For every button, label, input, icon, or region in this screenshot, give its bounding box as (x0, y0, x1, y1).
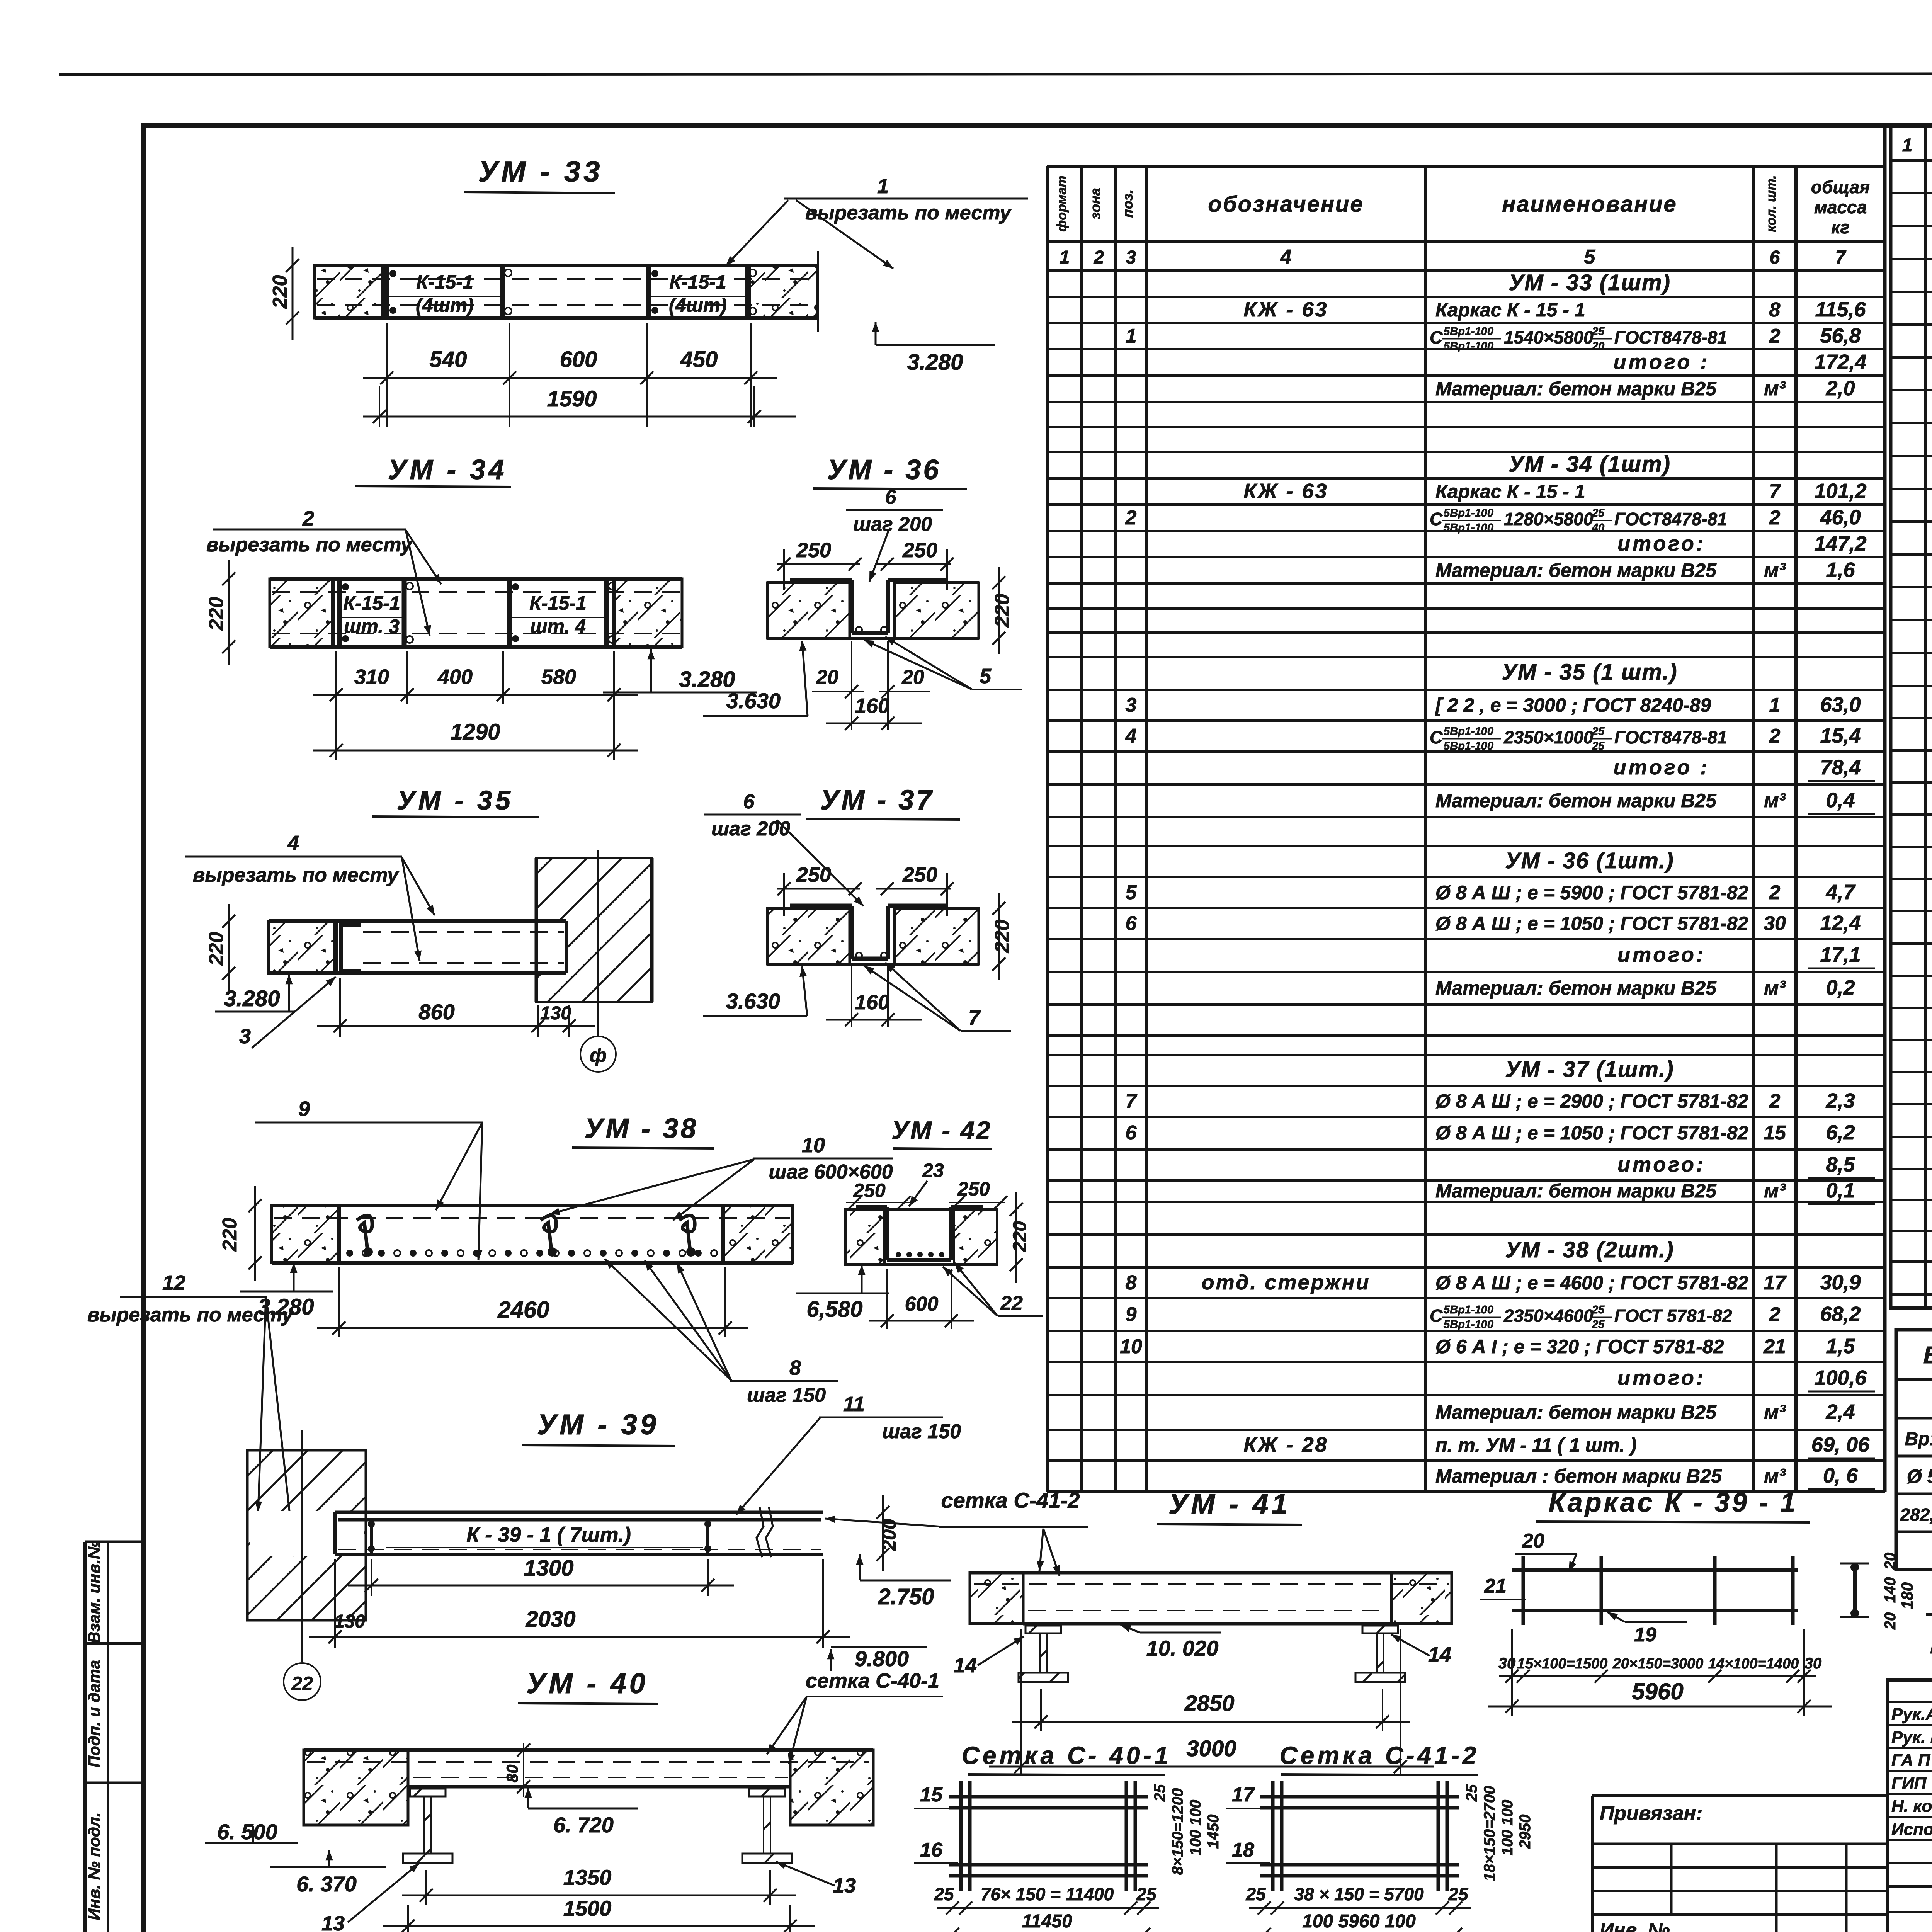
svg-text:1350: 1350 (563, 1865, 612, 1889)
svg-text:1,5: 1,5 (1826, 1335, 1855, 1358)
svg-text:0, 6: 0, 6 (1823, 1464, 1858, 1487)
svg-text:УМ - 42: УМ - 42 (891, 1116, 992, 1145)
svg-text:итого:: итого: (1617, 943, 1706, 966)
svg-text:Привязан:: Привязан: (1600, 1802, 1702, 1825)
svg-text:6: 6 (1126, 1122, 1137, 1144)
svg-text:20: 20 (1522, 1530, 1544, 1552)
svg-text:КЖ - 63: КЖ - 63 (1243, 298, 1328, 321)
svg-text:56,8: 56,8 (1820, 324, 1861, 347)
svg-text:250: 250 (796, 539, 831, 562)
svg-text:220: 220 (991, 920, 1014, 954)
drawing UM-40 (205, 1667, 943, 1932)
svg-text:20: 20 (901, 666, 924, 689)
drawing UM-39 (87, 1271, 961, 1700)
svg-text:шаг 150: шаг 150 (882, 1420, 961, 1443)
svg-text:140: 140 (1882, 1577, 1899, 1603)
svg-text:250: 250 (796, 863, 831, 886)
svg-text:1280×5800: 1280×5800 (1504, 509, 1594, 529)
svg-text:6: 6 (1126, 912, 1137, 935)
svg-text:6,2: 6,2 (1826, 1121, 1855, 1144)
svg-text:4: 4 (1125, 725, 1137, 747)
svg-text:600: 600 (560, 347, 597, 372)
svg-text:160: 160 (855, 991, 889, 1014)
svg-text:Материал: бетон марки В25: Материал: бетон марки В25 (1435, 378, 1717, 400)
svg-text:220: 220 (269, 275, 291, 309)
svg-text:Материал: бетон марки В25: Материал: бетон марки В25 (1435, 977, 1717, 999)
svg-text:147,2: 147,2 (1814, 532, 1866, 555)
svg-text:130: 130 (540, 1003, 571, 1024)
svg-text:17,1: 17,1 (1820, 943, 1861, 966)
svg-text:итого :: итого : (1614, 350, 1710, 374)
svg-text:14×100=1400: 14×100=1400 (1708, 1656, 1799, 1672)
svg-text:УМ - 34 (1шт): УМ - 34 (1шт) (1509, 452, 1671, 477)
svg-text:130: 130 (334, 1611, 365, 1632)
svg-text:19: 19 (1634, 1624, 1656, 1646)
svg-text:вырезать по месту: вырезать по месту (193, 864, 400, 886)
svg-text:11: 11 (843, 1393, 865, 1416)
svg-text:Сетка С- 40-1: Сетка С- 40-1 (962, 1742, 1172, 1769)
svg-text:1: 1 (1126, 325, 1137, 347)
svg-text:38 × 150 = 5700: 38 × 150 = 5700 (1294, 1884, 1424, 1904)
svg-text:540: 540 (430, 347, 467, 372)
svg-text:1: 1 (877, 175, 889, 198)
svg-text:22: 22 (1000, 1292, 1023, 1315)
svg-text:0,2: 0,2 (1826, 976, 1855, 999)
svg-text:16: 16 (920, 1839, 943, 1861)
svg-text:101,2: 101,2 (1814, 480, 1866, 503)
svg-text:Сетка С-41-2: Сетка С-41-2 (1280, 1742, 1480, 1769)
middle table header texts (1054, 175, 1870, 268)
svg-text:шаг 150: шаг 150 (747, 1384, 826, 1406)
svg-text:13: 13 (833, 1874, 856, 1897)
svg-text:9: 9 (298, 1097, 310, 1121)
svg-text:вырезать по месту: вырезать по месту (206, 534, 413, 556)
svg-text:3: 3 (1126, 247, 1136, 268)
svg-text:860: 860 (418, 1000, 454, 1024)
svg-text:20: 20 (1882, 1612, 1899, 1630)
svg-text:5Вр1-100: 5Вр1-100 (1444, 522, 1493, 534)
svg-text:Вр1: Вр1 (1905, 1429, 1932, 1449)
svg-text:К - 39 - 1 ( 7шт.): К - 39 - 1 ( 7шт.) (466, 1523, 631, 1546)
svg-text:7: 7 (1769, 480, 1781, 503)
svg-text:5: 5 (1584, 246, 1596, 268)
svg-text:Ø 8 А Ш ; e = 1050 ; ГОСТ 57: Ø 8 А Ш ; e = 1050 ; ГОСТ 5781-82 (1435, 913, 1748, 934)
svg-text:УМ - 34: УМ - 34 (388, 454, 507, 485)
note K-15-1 (1926, 1584, 1932, 1614)
svg-text:220: 220 (205, 932, 228, 966)
svg-text:2: 2 (1769, 1090, 1781, 1112)
svg-text:УМ - 39: УМ - 39 (537, 1408, 659, 1440)
svg-text:23: 23 (922, 1160, 944, 1181)
svg-text:ф: ф (590, 1044, 607, 1066)
svg-text:1: 1 (1060, 247, 1070, 268)
svg-text:30: 30 (1804, 1655, 1822, 1672)
svg-text:поз.: поз. (1120, 190, 1136, 218)
svg-text:м³: м³ (1764, 559, 1786, 582)
svg-text:К-15-1: К-15-1 (343, 592, 400, 614)
svg-text:6,580: 6,580 (806, 1297, 862, 1322)
svg-text:46,0: 46,0 (1820, 506, 1861, 529)
svg-text:итого:: итого: (1617, 1153, 1706, 1176)
middle specification table grid (1047, 166, 1885, 1492)
title block frame (1888, 1680, 1932, 1932)
svg-text:2950: 2950 (1517, 1815, 1534, 1849)
svg-text:220: 220 (991, 594, 1014, 628)
svg-text:Инв. №: Инв. № (1600, 1919, 1670, 1932)
svg-text:25: 25 (1592, 1304, 1605, 1316)
svg-text:ГА П: ГА П (1891, 1751, 1931, 1770)
svg-text:сетка С-40-1: сетка С-40-1 (806, 1669, 939, 1692)
svg-text:450: 450 (680, 347, 718, 372)
svg-text:итого :: итого : (1614, 756, 1710, 779)
svg-text:Н. контр.: Н. контр. (1891, 1797, 1932, 1816)
svg-text:1500: 1500 (563, 1896, 612, 1920)
svg-text:УМ - 38 (2шт.): УМ - 38 (2шт.) (1505, 1237, 1674, 1262)
svg-text:68,2: 68,2 (1820, 1303, 1861, 1326)
svg-text:итого:: итого: (1617, 1366, 1706, 1389)
svg-text:Ø 6 А I ; e = 320 ; ГОСТ 5781: Ø 6 А I ; e = 320 ; ГОСТ 5781-82 (1435, 1336, 1724, 1357)
svg-text:180: 180 (1898, 1582, 1916, 1609)
middle table rows (1047, 270, 1885, 1492)
svg-text:5Вр1-100: 5Вр1-100 (1444, 1318, 1493, 1331)
svg-text:наименование: наименование (1502, 192, 1677, 217)
svg-text:2: 2 (1125, 507, 1137, 529)
note sheets (1930, 1629, 1932, 1654)
svg-text:20×150=3000: 20×150=3000 (1612, 1656, 1704, 1672)
svg-text:Каркас К - 39 - 1: Каркас К - 39 - 1 (1549, 1487, 1798, 1517)
svg-text:1590: 1590 (547, 386, 597, 412)
svg-text:25: 25 (1151, 1784, 1168, 1802)
svg-text:2.750: 2.750 (878, 1584, 934, 1609)
svg-text:30: 30 (1498, 1655, 1516, 1672)
svg-text:2: 2 (1769, 325, 1781, 347)
svg-text:4,7: 4,7 (1825, 881, 1856, 904)
svg-text:5: 5 (1126, 881, 1137, 904)
svg-text:ГИП: ГИП (1891, 1774, 1927, 1793)
svg-text:8: 8 (1126, 1272, 1137, 1294)
svg-text:15,4: 15,4 (1820, 724, 1861, 747)
svg-text:Материал : бетон марки В25: Материал : бетон марки В25 (1435, 1465, 1722, 1487)
svg-text:6. 720: 6. 720 (553, 1813, 614, 1837)
svg-text:Ø 8 А Ш ; e = 1050 ; ГОСТ 57: Ø 8 А Ш ; e = 1050 ; ГОСТ 5781-82 (1435, 1122, 1748, 1144)
svg-text:С: С (1430, 727, 1443, 747)
svg-text:580: 580 (541, 665, 576, 689)
svg-text:2: 2 (1769, 881, 1781, 904)
svg-text:25: 25 (1592, 1318, 1605, 1331)
svg-text:3: 3 (239, 1025, 251, 1048)
svg-text:310: 310 (354, 665, 389, 689)
svg-text:Ø 8 А Ш ; e = 4600 ; ГОСТ 578: Ø 8 А Ш ; e = 4600 ; ГОСТ 5781-82 (1435, 1272, 1748, 1294)
svg-text:обозначение: обозначение (1208, 192, 1364, 217)
right table grid (1889, 123, 1932, 1308)
svg-text:8: 8 (789, 1356, 801, 1379)
svg-text:7: 7 (1835, 247, 1847, 268)
svg-text:6: 6 (885, 486, 897, 509)
svg-text:1540×5800: 1540×5800 (1504, 327, 1594, 347)
svg-text:250: 250 (902, 539, 937, 562)
vedomost steel table (1896, 1330, 1932, 1570)
svg-text:18×150=2700: 18×150=2700 (1481, 1786, 1498, 1881)
svg-text:63,0: 63,0 (1820, 693, 1861, 716)
svg-text:1: 1 (1769, 694, 1781, 716)
svg-text:2: 2 (1769, 507, 1781, 529)
right table double separator (1885, 123, 1891, 1492)
svg-text:1: 1 (1902, 135, 1913, 156)
svg-text:2350×4600: 2350×4600 (1503, 1306, 1594, 1326)
svg-text:Инв. № подл.: Инв. № подл. (85, 1812, 103, 1920)
svg-text:100 100: 100 100 (1499, 1800, 1516, 1856)
svg-text:15: 15 (1764, 1122, 1786, 1144)
vedomost title (1923, 1342, 1932, 1369)
svg-text:25: 25 (1592, 507, 1605, 519)
svg-text:5Вр1-100: 5Вр1-100 (1444, 325, 1493, 338)
svg-text:100 5960 100: 100 5960 100 (1302, 1911, 1416, 1932)
svg-text:Рук. КБ-1: Рук. КБ-1 (1891, 1728, 1932, 1747)
svg-text:2030: 2030 (525, 1607, 575, 1632)
svg-text:2: 2 (1094, 247, 1104, 268)
svg-text:отд. стержни: отд. стержни (1202, 1271, 1371, 1294)
svg-text:2460: 2460 (497, 1297, 549, 1323)
middle table row texts (1120, 270, 1875, 1489)
svg-text:С: С (1430, 1306, 1443, 1326)
svg-text:2,3: 2,3 (1825, 1089, 1855, 1112)
svg-text:400: 400 (437, 665, 473, 689)
svg-text:0,4: 0,4 (1826, 789, 1855, 812)
svg-text:3.630: 3.630 (726, 989, 780, 1013)
svg-text:УМ - 35: УМ - 35 (397, 785, 514, 815)
svg-text:1290: 1290 (450, 719, 500, 745)
svg-text:3000: 3000 (1186, 1736, 1236, 1761)
svg-text:ГОСТ8478-81: ГОСТ8478-81 (1614, 327, 1727, 347)
svg-text:Данный лист см. с лист: Данный лист см. с листами КЖ - 64 ; КЖ -… (1930, 1629, 1932, 1654)
svg-text:8,5: 8,5 (1826, 1153, 1855, 1176)
drawing UM-37 (703, 785, 1014, 1031)
svg-text:78,4: 78,4 (1820, 756, 1861, 779)
svg-text:25: 25 (1592, 325, 1605, 338)
svg-text:Исполн.: Исполн. (1891, 1820, 1932, 1839)
drawing UM-36 (703, 454, 1022, 730)
svg-text:220: 220 (219, 1218, 241, 1252)
svg-text:С: С (1430, 327, 1443, 347)
svg-text:30: 30 (1764, 912, 1786, 935)
svg-text:250: 250 (853, 1180, 886, 1201)
svg-text:15: 15 (920, 1784, 943, 1806)
svg-text:3.280: 3.280 (224, 986, 280, 1011)
svg-text:[ 2 2 , e = 3000 ; ГОСТ 824: [ 2 2 , e = 3000 ; ГОСТ 8240-89 (1435, 694, 1711, 716)
svg-text:шаг 200: шаг 200 (853, 513, 932, 536)
svg-text:(4шт): (4шт) (416, 294, 474, 316)
svg-text:17: 17 (1232, 1784, 1255, 1806)
svg-text:2350×1000: 2350×1000 (1503, 727, 1594, 747)
svg-text:25: 25 (934, 1884, 954, 1904)
drawing UM-35 (185, 785, 652, 1072)
svg-text:14: 14 (1428, 1643, 1451, 1666)
svg-text:20: 20 (1882, 1553, 1899, 1570)
svg-text:5Вр1-100: 5Вр1-100 (1444, 507, 1493, 519)
svg-text:КЖ - 63: КЖ - 63 (1243, 480, 1328, 503)
svg-text:5Вр1-100: 5Вр1-100 (1444, 740, 1493, 752)
svg-text:2: 2 (1769, 1303, 1781, 1326)
svg-text:9.800: 9.800 (855, 1646, 909, 1671)
svg-text:5: 5 (980, 665, 992, 688)
svg-text:УМ - 41: УМ - 41 (1168, 1488, 1291, 1520)
svg-text:общая: общая (1811, 177, 1870, 197)
svg-text:6: 6 (1770, 247, 1780, 268)
svg-text:21: 21 (1484, 1575, 1507, 1597)
svg-text:25: 25 (1136, 1884, 1157, 1904)
svg-text:40: 40 (1592, 522, 1604, 534)
svg-text:м³: м³ (1764, 1465, 1786, 1487)
drawing setka S-40-1 (914, 1742, 1222, 1932)
svg-text:5Вр1-100: 5Вр1-100 (1444, 1304, 1493, 1316)
svg-text:УМ - 40: УМ - 40 (526, 1667, 648, 1699)
svg-text:30,9: 30,9 (1820, 1271, 1861, 1294)
svg-text:0,1: 0,1 (1826, 1179, 1855, 1202)
svg-text:5960: 5960 (1632, 1679, 1683, 1704)
vedomost texts (1900, 1386, 1932, 1563)
svg-text:5Вр1-100: 5Вр1-100 (1444, 725, 1493, 738)
svg-text:12: 12 (162, 1271, 185, 1294)
svg-text:м³: м³ (1764, 378, 1786, 400)
svg-text:Материал: бетон марки В25: Материал: бетон марки В25 (1435, 560, 1717, 581)
svg-text:2850: 2850 (1184, 1691, 1234, 1716)
svg-text:6. 500: 6. 500 (217, 1820, 277, 1844)
svg-text:600: 600 (905, 1293, 939, 1315)
svg-text:Взам. инв.№: Взам. инв.№ (85, 1541, 103, 1643)
svg-text:22: 22 (291, 1673, 313, 1694)
svg-text:17: 17 (1764, 1272, 1787, 1294)
svg-text:Каркас К - 15 - 1: Каркас К - 15 - 1 (1435, 299, 1585, 321)
svg-text:80: 80 (503, 1765, 521, 1783)
drawing UM-41 (939, 1488, 1452, 1776)
svg-text:УМ - 36: УМ - 36 (827, 454, 941, 485)
svg-text:4: 4 (1280, 246, 1292, 268)
svg-text:7: 7 (1126, 1090, 1138, 1112)
svg-text:УМ - 33 (1шт): УМ - 33 (1шт) (1509, 270, 1671, 295)
svg-text:25: 25 (1463, 1784, 1480, 1802)
svg-text:2: 2 (302, 507, 314, 530)
svg-text:2,0: 2,0 (1825, 377, 1855, 400)
svg-text:9: 9 (1126, 1303, 1137, 1326)
svg-text:13: 13 (321, 1912, 345, 1932)
svg-text:100,6: 100,6 (1814, 1366, 1867, 1389)
svg-text:2,4: 2,4 (1825, 1400, 1855, 1423)
svg-text:ГОСТ 5781-82: ГОСТ 5781-82 (1614, 1306, 1732, 1326)
svg-text:10: 10 (802, 1134, 825, 1157)
svg-text:Ведомость расхода стали: Ведомость расхода стали на монолитные уч… (1923, 1342, 1932, 1369)
drawing UM-42 (796, 1116, 1043, 1329)
drawing setka S-41-2 (1226, 1742, 1534, 1932)
privyazan box (1592, 1796, 1888, 1932)
svg-text:Рук.АБ-1: Рук.АБ-1 (1891, 1705, 1932, 1724)
svg-text:20: 20 (1592, 340, 1604, 352)
svg-text:21: 21 (1763, 1335, 1786, 1358)
svg-text:Материал: бетон марки В25: Материал: бетон марки В25 (1435, 790, 1717, 811)
svg-text:25: 25 (1592, 725, 1605, 738)
svg-text:250: 250 (902, 863, 937, 886)
svg-text:25: 25 (1245, 1884, 1266, 1904)
svg-text:250: 250 (957, 1178, 990, 1200)
svg-text:3.280: 3.280 (907, 350, 963, 375)
svg-text:КЖ - 28: КЖ - 28 (1243, 1433, 1328, 1456)
svg-text:ГОСТ8478-81: ГОСТ8478-81 (1614, 509, 1727, 529)
svg-text:УМ - 37: УМ - 37 (820, 785, 934, 816)
svg-text:шт. 3: шт. 3 (344, 616, 400, 637)
svg-text:25: 25 (1448, 1884, 1469, 1904)
drawing UM-34 (205, 454, 757, 760)
drawing UM-38 (219, 1097, 893, 1406)
svg-text:2: 2 (1769, 725, 1781, 747)
svg-text:УМ - 33: УМ - 33 (478, 155, 603, 188)
svg-text:Материал: бетон марки В25: Материал: бетон марки В25 (1435, 1401, 1717, 1423)
svg-text:м³: м³ (1764, 977, 1786, 999)
svg-text:м³: м³ (1764, 1180, 1786, 1202)
svg-text:УМ - 38: УМ - 38 (585, 1113, 699, 1144)
svg-text:ГОСТ8478-81: ГОСТ8478-81 (1614, 727, 1727, 747)
svg-text:10. 020: 10. 020 (1146, 1636, 1219, 1660)
svg-text:282,8: 282,8 (1900, 1505, 1932, 1525)
svg-text:15×100=1500: 15×100=1500 (1517, 1656, 1608, 1672)
svg-text:вырезать по месту: вырезать по месту (805, 202, 1012, 224)
svg-text:Каркас К - 15 - 1: Каркас К - 15 - 1 (1435, 481, 1585, 502)
svg-text:76× 150 = 11400: 76× 150 = 11400 (981, 1884, 1114, 1904)
svg-text:172,4: 172,4 (1814, 350, 1866, 374)
svg-text:100 100: 100 100 (1187, 1800, 1204, 1856)
svg-text:кг: кг (1831, 217, 1850, 237)
drawing karkas K-39-1 (1480, 1487, 1916, 1716)
svg-text:1300: 1300 (524, 1556, 573, 1581)
svg-text:3: 3 (1126, 694, 1137, 716)
svg-text:УМ - 35 (1 шт.): УМ - 35 (1 шт.) (1502, 660, 1677, 685)
svg-text:Ø 5: Ø 5 (1907, 1466, 1932, 1487)
svg-text:1450: 1450 (1205, 1815, 1222, 1849)
svg-text:м³: м³ (1764, 789, 1786, 812)
svg-text:формат: формат (1054, 175, 1069, 231)
svg-text:Ø 8 А Ш ; e = 5900 ; ГОСТ 57: Ø 8 А Ш ; e = 5900 ; ГОСТ 5781-82 (1435, 882, 1748, 903)
svg-text:Ø 8 А Ш ; e = 2900 ; ГОСТ 578: Ø 8 А Ш ; e = 2900 ; ГОСТ 5781-82 (1435, 1090, 1748, 1112)
right table rows (1889, 160, 1932, 1294)
svg-text:10: 10 (1120, 1335, 1142, 1358)
svg-text:зона: зона (1087, 188, 1103, 219)
svg-text:К-15-1: К-15-1 (416, 271, 473, 293)
svg-text:115,6: 115,6 (1815, 298, 1866, 321)
svg-text:С: С (1430, 509, 1443, 529)
svg-text:3.630: 3.630 (726, 689, 781, 713)
svg-text:п. т. УМ - 11 ( 1 шт. ): п. т. УМ - 11 ( 1 шт. ) (1435, 1434, 1637, 1456)
svg-text:69, 06: 69, 06 (1811, 1433, 1870, 1456)
svg-text:18: 18 (1232, 1839, 1254, 1861)
svg-text:7: 7 (968, 1006, 981, 1029)
svg-text:итого:: итого: (1617, 532, 1706, 555)
svg-text:Подп. и дата: Подп. и дата (85, 1660, 103, 1767)
svg-text:масса: масса (1814, 197, 1867, 217)
title block signature texts (1891, 1704, 1932, 1839)
svg-text:11450: 11450 (1022, 1911, 1072, 1932)
top border line (59, 73, 1932, 75)
svg-text:вырезать по месту: вырезать по месту (87, 1304, 294, 1326)
svg-text:220: 220 (205, 597, 228, 631)
svg-text:шт. 4: шт. 4 (530, 616, 586, 637)
svg-text:м³: м³ (1764, 1401, 1786, 1423)
svg-text:5Вр1-100: 5Вр1-100 (1444, 340, 1493, 352)
svg-text:1,6: 1,6 (1826, 558, 1855, 582)
svg-text:20: 20 (816, 666, 838, 689)
svg-text:(4шт): (4шт) (669, 294, 727, 316)
svg-text:6. 370: 6. 370 (296, 1872, 357, 1896)
svg-text:УМ - 37 (1шт.): УМ - 37 (1шт.) (1505, 1057, 1674, 1082)
svg-text:4: 4 (287, 832, 299, 855)
svg-text:К-15-1: К-15-1 (529, 592, 586, 614)
